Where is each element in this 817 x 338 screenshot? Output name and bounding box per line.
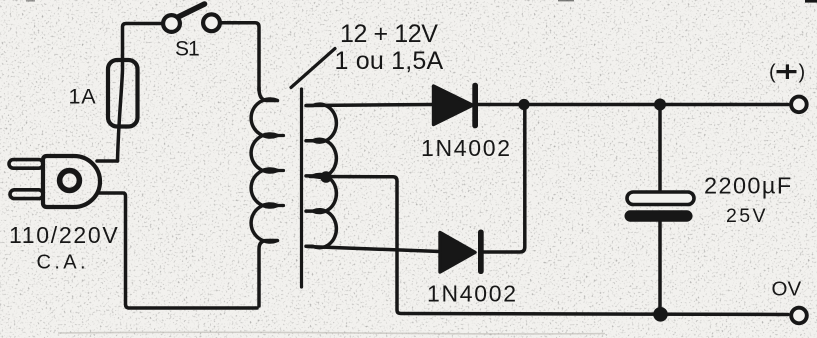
svg-text:1N4002: 1N4002 [421,135,512,161]
svg-text:2200µF: 2200µF [704,173,793,199]
scanner mark top left [26,0,35,2]
svg-text:110/220V: 110/220V [9,222,119,248]
svg-text:25V: 25V [726,205,768,227]
label (+) plus sign [777,64,797,79]
wire plug bottom down to bottom-left rail [99,193,257,308]
svg-text:1N4002: 1N4002 [427,281,518,307]
capacitor C1 bottom lead [658,221,662,315]
svg-text:S1: S1 [175,38,199,61]
junction dot capacitor top [654,99,666,111]
plug prong lower [10,190,43,199]
plug ring hole [60,171,80,191]
diode D1 cathode bar [472,83,478,129]
transformer T1 secondary winding [306,104,336,248]
wire plug top to fuse vertical [97,159,118,163]
transformer primary cusp ticks [278,136,284,206]
wire D1 cathode to plus terminal [477,103,788,107]
annotation slash to transformer label [291,49,335,88]
capacitor C1 top plate (outline) [627,192,694,205]
diode D1 triangle [434,86,473,125]
wire junction down to D2 cathode [483,105,525,253]
junction dot center tap [320,171,332,183]
svg-text:12 + 12V: 12 + 12V [340,20,438,48]
switch S1 lever [178,4,205,17]
junction dot D1 cathode rail [518,99,529,110]
plug body [43,156,100,207]
scanner streak bottom [58,332,605,334]
wire switch to transformer primary top [220,23,259,90]
capacitor C1 bottom plate (filled) [625,210,693,221]
terminal 0V circle [791,308,807,324]
scanner mark top right [805,0,817,3]
svg-text:(: ( [769,62,776,84]
svg-text:OV: OV [772,278,802,301]
svg-text:C.A.: C.A. [37,252,90,274]
switch S1 left contact [163,15,180,32]
svg-text:): ) [799,62,806,84]
diode D2 triangle [440,233,475,273]
diode D2 cathode bar [478,230,484,275]
plug prong upper [9,160,43,169]
wire secondary top to diode D1 [307,105,433,106]
capacitor C1 top lead [658,105,662,193]
terminal (+) circle [791,97,807,113]
svg-text:1 ou 1,5A: 1 ou 1,5A [335,47,444,75]
wire secondary bottom to diode D2 [307,247,440,252]
scanner mark top middle [558,0,574,1]
transformer T1 primary winding [251,88,277,306]
junction dot capacitor bottom [653,307,668,322]
wire center tap to bottom rail to 0V [310,177,788,315]
switch S1 right contact [203,14,220,31]
transformer core [300,89,303,287]
wire fuse vertical (through fuse) [118,24,164,162]
svg-text:1A: 1A [69,85,97,109]
fuse F1 body [108,60,138,127]
